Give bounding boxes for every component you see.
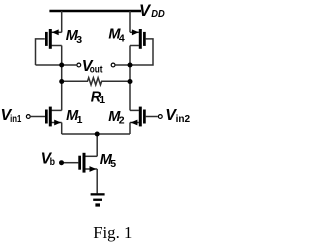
- svg-text:in1: in1: [10, 113, 21, 125]
- svg-text:1: 1: [77, 114, 83, 126]
- svg-text:in2: in2: [176, 113, 191, 125]
- svg-text:3: 3: [76, 34, 82, 46]
- svg-text:2: 2: [119, 115, 125, 127]
- svg-text:DD: DD: [151, 8, 165, 20]
- svg-text:4: 4: [119, 32, 125, 44]
- svg-text:out: out: [90, 63, 103, 75]
- svg-text:b: b: [50, 156, 55, 168]
- svg-text:1: 1: [99, 94, 105, 106]
- svg-text:Fig. 1: Fig. 1: [93, 223, 132, 242]
- svg-text:5: 5: [110, 158, 116, 170]
